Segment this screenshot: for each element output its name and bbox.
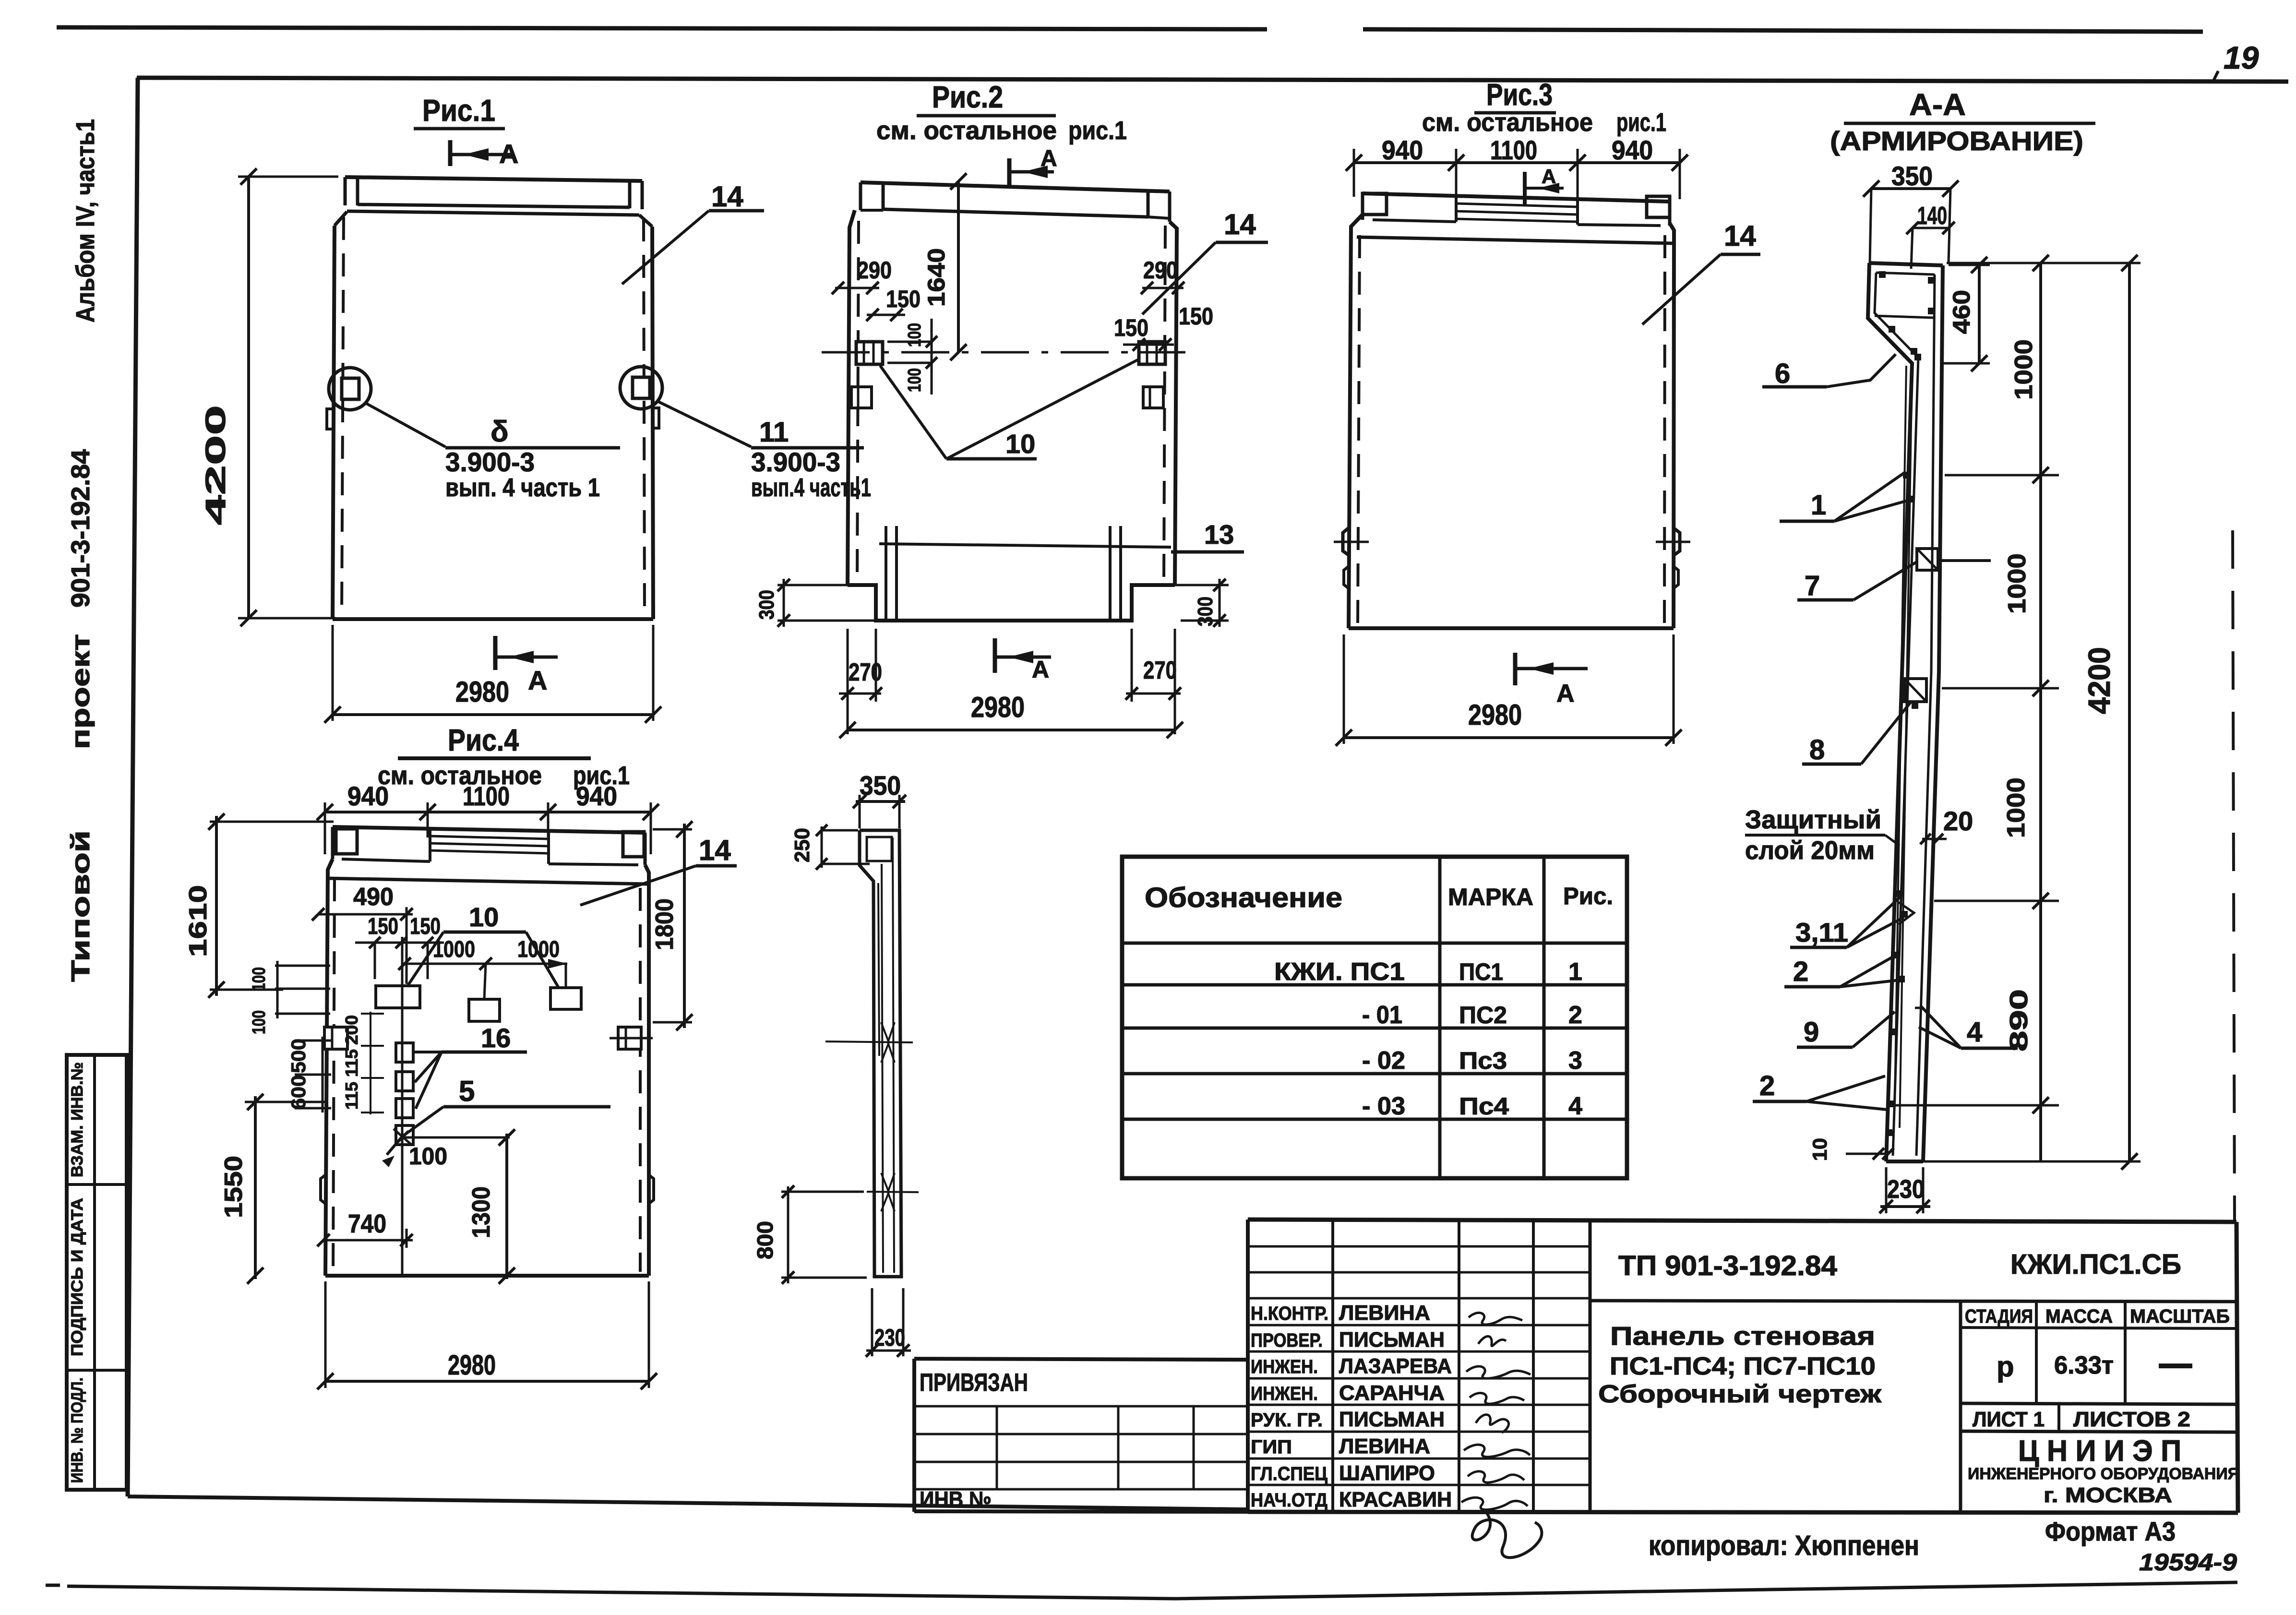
Ris.2 dashed inner right (1164, 226, 1165, 581)
Ris.1 dashed inner edge right (644, 218, 645, 615)
sheet frame bottom (128, 1496, 1248, 1509)
svg-text:КЖИ.ПС1.СБ: КЖИ.ПС1.СБ (2010, 1249, 2181, 1280)
svg-text:14: 14 (1224, 208, 1256, 240)
svg-text:20: 20 (1943, 806, 1973, 836)
svg-text:г. МОСКВА: г. МОСКВА (2044, 1483, 2172, 1507)
svg-text:4200: 4200 (200, 405, 231, 525)
svg-text:A: A (528, 665, 547, 695)
Ris.3 socket left (1343, 528, 1350, 556)
svg-text:300: 300 (755, 590, 778, 620)
Ris.4 thin vertical line (401, 937, 404, 1276)
A-A dim chain 1000/1000/1000/890 (2039, 263, 2042, 1161)
Ris.2 dim 300 left (777, 584, 848, 586)
svg-text:1300: 1300 (467, 1186, 495, 1238)
svg-text:11: 11 (759, 417, 789, 448)
svg-text:ПОДПИСЬ И ДАТА: ПОДПИСЬ И ДАТА (68, 1198, 86, 1356)
Ris.4 dimension 2980 bottom (324, 1281, 327, 1388)
A-A dim 460 (1978, 265, 1981, 363)
svg-text:ГИП: ГИП (1251, 1436, 1292, 1458)
Ris.1 panel bottom edge (333, 617, 653, 621)
svg-text:ТП 901-3-192.84: ТП 901-3-192.84 (1618, 1250, 1837, 1281)
sheet frame top (137, 78, 2288, 82)
svg-text:4200: 4200 (2082, 647, 2117, 714)
svg-text:230: 230 (1887, 1175, 1925, 1204)
Ris.3 dashed inner right (1664, 235, 1665, 624)
svg-text:ПС2: ПС2 (1459, 1002, 1507, 1029)
Ris.2 dimension 2980 bottom (848, 729, 1175, 731)
svg-text:10: 10 (469, 902, 499, 932)
title block center divider (1589, 1220, 1592, 1512)
svg-text:- 02: - 02 (1362, 1047, 1405, 1075)
bottom rule (67, 1582, 2237, 1599)
A-A stem mid lines (1895, 366, 1906, 1104)
svg-text:ЛАЗАРЕВА: ЛАЗАРЕВА (1339, 1354, 1452, 1378)
Ris.1 panel right edge (652, 227, 653, 619)
Ris.4 embedded plates (376, 986, 420, 1008)
svg-text:890: 890 (2005, 989, 2033, 1052)
svg-text:Защитный: Защитный (1745, 805, 1881, 834)
svg-text:A: A (1542, 165, 1556, 188)
svg-text:150: 150 (410, 914, 441, 939)
svg-text:вып.4 часть1: вып.4 часть1 (751, 473, 871, 502)
svg-text:2980: 2980 (1468, 699, 1522, 731)
svg-text:2980: 2980 (448, 1350, 496, 1381)
signatures (1469, 1313, 1522, 1325)
svg-text:ПРИВЯЗАН: ПРИВЯЗАН (920, 1369, 1028, 1397)
svg-text:940: 940 (1382, 135, 1423, 165)
Ris.4 socket right (618, 1027, 641, 1049)
svg-text:7: 7 (1805, 570, 1820, 601)
svg-text:250: 250 (790, 828, 814, 862)
svg-text:8: 8 (1809, 734, 1825, 766)
Ris.1 dimension 2980 bottom (332, 625, 334, 721)
svg-text:ВЗАМ. ИНВ.№: ВЗАМ. ИНВ.№ (68, 1062, 86, 1177)
svg-text:ЛЕВИНА: ЛЕВИНА (1339, 1301, 1430, 1325)
svg-text:ПС1-ПС4; ПС7-ПС10: ПС1-ПС4; ПС7-ПС10 (1610, 1352, 1876, 1380)
Ris.3 panel right edge (1670, 223, 1674, 628)
svg-text:рис.1: рис.1 (1068, 116, 1127, 145)
svg-text:14: 14 (711, 180, 743, 213)
Ris.1 panel second edge line (347, 211, 639, 215)
Ris.4 bottom edge (325, 1274, 649, 1278)
parts table (1122, 857, 1627, 1178)
svg-text:рис.1: рис.1 (1616, 108, 1666, 137)
svg-text:1: 1 (1568, 958, 1582, 986)
svg-text:см. остальное: см. остальное (876, 116, 1057, 145)
Ris.2 panel right edge (1170, 222, 1177, 585)
svg-text:230: 230 (874, 1324, 905, 1351)
svg-text:2: 2 (1793, 956, 1808, 987)
A-A dim 4200 overall (2128, 263, 2131, 1161)
Ris.3 dimension 2980 bottom (1343, 634, 1345, 744)
svg-text:проект: проект (66, 634, 95, 749)
svg-text:слой 20мм: слой 20мм (1745, 836, 1875, 865)
Ris.4 dim 1300 (505, 1134, 508, 1279)
Ris.1 dashed inner edge left (342, 217, 344, 615)
svg-text:Панель стеновая: Панель стеновая (1610, 1322, 1875, 1351)
svg-text:Рис.2: Рис.2 (932, 80, 1003, 114)
svg-text:1100: 1100 (463, 781, 510, 811)
Ris.3 section mark A bottom (1513, 653, 1518, 685)
svg-text:- 03: - 03 (1362, 1092, 1405, 1120)
svg-text:Альбом IV, часть1: Альбом IV, часть1 (71, 119, 100, 323)
side profile inner top box (867, 837, 892, 861)
Ris.2 socket left (856, 342, 883, 364)
svg-text:ПС1: ПС1 (1459, 958, 1503, 985)
svg-text:(АРМИРОВАНИЕ): (АРМИРОВАНИЕ) (1830, 126, 2083, 156)
Ris.1 leader to label 11 (658, 401, 751, 447)
Ris.3 section mark A top (1523, 172, 1527, 205)
svg-text:A: A (1040, 146, 1057, 171)
Ris.3 second full line (1357, 237, 1673, 243)
svg-text:А-А: А-А (1909, 87, 1966, 122)
Ris.2 section mark A top (1007, 158, 1012, 185)
svg-text:НАЧ.ОТД: НАЧ.ОТД (1251, 1490, 1327, 1511)
A-A embedded detail upper (1917, 549, 1938, 570)
svg-text:см. остальное: см. остальное (378, 761, 542, 790)
svg-text:ИНВ. № ПОДЛ.: ИНВ. № ПОДЛ. (68, 1377, 86, 1483)
Ris.3 tab bottoms (1373, 220, 1456, 222)
svg-text:1610: 1610 (184, 885, 212, 957)
svg-text:19: 19 (2224, 40, 2259, 75)
svg-text:КЖИ. ПС1: КЖИ. ПС1 (1274, 958, 1405, 986)
Ris.1 lifting loop circle right (620, 367, 662, 409)
svg-text:100: 100 (905, 323, 925, 347)
svg-text:10: 10 (1808, 1138, 1831, 1161)
svg-text:940: 940 (576, 781, 617, 811)
svg-text:см. остальное: см. остальное (1422, 108, 1593, 137)
Ris.4 small embed squares column (396, 1043, 413, 1062)
Ris.1 small edge notches (327, 409, 333, 429)
svg-text:3: 3 (1568, 1047, 1582, 1075)
svg-text:КРАСАВИН: КРАСАВИН (1339, 1488, 1452, 1511)
svg-text:Обозначение: Обозначение (1145, 882, 1342, 913)
svg-text:13: 13 (1204, 519, 1234, 550)
side profile outline (860, 830, 901, 1277)
svg-text:Рис.3: Рис.3 (1486, 77, 1553, 112)
Ris.3 bottom edge (1349, 626, 1674, 630)
svg-text:350: 350 (1891, 161, 1933, 191)
svg-text:ЛИСТ 1: ЛИСТ 1 (1973, 1408, 2045, 1431)
svg-text:100: 100 (249, 1010, 269, 1034)
Ris.4 dims 100 100 left (275, 965, 330, 967)
svg-text:1000: 1000 (2010, 339, 2038, 400)
svg-text:A: A (1556, 680, 1575, 707)
svg-text:вып. 4 часть 1: вып. 4 часть 1 (445, 473, 600, 502)
Ris.4 panel right edge (645, 865, 649, 1276)
title block outline (1248, 1220, 2236, 1222)
svg-text:600: 600 (287, 1075, 310, 1110)
Ris.2 dim 300 right (1175, 584, 1229, 586)
svg-text:МАСШТАБ: МАСШТАБ (2130, 1306, 2230, 1327)
svg-text:14: 14 (699, 834, 731, 866)
svg-text:3.900-3: 3.900-3 (445, 447, 535, 477)
svg-text:ИНЖЕН.: ИНЖЕН. (1251, 1356, 1318, 1377)
svg-text:14: 14 (1724, 220, 1756, 252)
svg-text:300: 300 (1194, 597, 1217, 626)
svg-text:Пс3: Пс3 (1459, 1047, 1507, 1074)
svg-text:19594-9: 19594-9 (2139, 1549, 2237, 1576)
side profile dim 800 (781, 1191, 864, 1193)
margin stamp boxes bottom-left (67, 1055, 127, 1490)
svg-text:740: 740 (348, 1209, 386, 1238)
svg-text:ЛЕВИНА: ЛЕВИНА (1339, 1435, 1430, 1458)
side profile dim 230 (871, 1288, 873, 1356)
svg-text:100: 100 (905, 368, 925, 392)
Ris.4 dims 115 115 200 (370, 1012, 371, 1114)
Ris.4 dashed inner right (639, 888, 642, 1272)
Ris.3 lower edge notches (1344, 566, 1349, 588)
svg-text:2: 2 (1759, 1070, 1775, 1101)
Ris.2 door jamb bars right (1109, 526, 1112, 619)
Ris.1 panel left shoulder (335, 212, 347, 226)
Ris.1 panel left edge (333, 226, 335, 619)
svg-text:Формат А3: Формат А3 (2045, 1516, 2176, 1546)
Ris.3 center recess lines (1456, 203, 1578, 207)
Ris.4 socket left (324, 1027, 347, 1049)
names table columns (1331, 1220, 1334, 1512)
svg-text:115: 115 (342, 1082, 361, 1110)
Ris.1 section mark A bottom (493, 636, 498, 670)
Ris.3 dashed inner left (1358, 235, 1360, 624)
sheet frame left (128, 78, 138, 1496)
A-A inner wall lines (1876, 273, 1935, 275)
svg-text:р: р (1997, 1351, 2014, 1383)
Ris.4 dim 1800 right (653, 828, 692, 831)
Ris.3 panel left edge (1349, 215, 1363, 628)
svg-text:140: 140 (1917, 202, 1947, 230)
svg-text:Рис.4: Рис.4 (448, 723, 519, 757)
svg-text:100: 100 (409, 1143, 447, 1170)
svg-text:3,11: 3,11 (1795, 917, 1848, 947)
Ris.4 top strip (333, 827, 645, 833)
Ris.2 socket right (1139, 342, 1165, 364)
svg-text:ПИСЬМАН: ПИСЬМАН (1339, 1328, 1445, 1352)
Ris.2 center line (822, 351, 1185, 354)
svg-text:290: 290 (1143, 257, 1178, 284)
Ris.1 panel right shoulder (639, 215, 652, 227)
Ris.2 bottom outline with center sill (848, 585, 1175, 621)
svg-text:ИНВ №: ИНВ № (920, 1487, 992, 1512)
A-A rebar dots (1879, 271, 1886, 278)
Ris.2 lower notch right (1143, 387, 1163, 408)
svg-text:9: 9 (1804, 1017, 1819, 1048)
svg-text:200: 200 (342, 1015, 361, 1045)
Ris.2 dimension 1640 (957, 181, 960, 352)
svg-text:РУК. ГР.: РУК. ГР. (1251, 1410, 1323, 1431)
svg-text:460: 460 (1948, 290, 1975, 334)
svg-text:САРАНЧА: САРАНЧА (1339, 1381, 1445, 1405)
sheet frame right (2233, 530, 2235, 1221)
svg-text:2980: 2980 (455, 676, 509, 708)
Ris.2 panel left edge (848, 210, 855, 585)
svg-text:Рис.1: Рис.1 (422, 93, 495, 128)
Ris.4 tab bottoms (342, 859, 430, 861)
Ris.2 door jamb bars left (885, 526, 887, 619)
svg-text:Н.КОНТР.: Н.КОНТР. (1251, 1303, 1328, 1324)
svg-text:100: 100 (249, 967, 269, 991)
Ris.4 lower edge notches (321, 1175, 325, 1204)
Ris.4 dim 1610 left (210, 821, 334, 823)
svg-text:490: 490 (353, 883, 394, 911)
A-A hook strokes mid (1899, 902, 1914, 924)
Ris.2 top strip (861, 182, 1170, 191)
svg-text:1800: 1800 (651, 898, 679, 950)
Ris.2 dims 100/100 left (887, 341, 933, 343)
Ris.2 dashed inner left (857, 221, 859, 581)
svg-text:Рис.: Рис. (1563, 883, 1613, 909)
svg-text:940: 940 (347, 781, 389, 811)
svg-text:2: 2 (1568, 1001, 1582, 1029)
svg-text:δ: δ (490, 415, 509, 448)
svg-text:270: 270 (1143, 657, 1177, 684)
svg-text:1640: 1640 (923, 248, 950, 307)
A-A dim 230 bottom (1885, 1167, 1888, 1213)
svg-text:1000: 1000 (433, 937, 475, 962)
svg-text:1550: 1550 (220, 1156, 248, 1218)
side profile inner lines (882, 864, 883, 1273)
signature flourish (1472, 1512, 1542, 1557)
svg-text:3.900-3: 3.900-3 (751, 447, 840, 477)
Ris.1 panel top strip (345, 177, 642, 181)
svg-text:ПИСЬМАН: ПИСЬМАН (1339, 1408, 1445, 1431)
svg-text:6.33т: 6.33т (2054, 1352, 2114, 1379)
svg-text:ПРОВЕР.: ПРОВЕР. (1251, 1330, 1323, 1351)
Ris.1 leader to label 5 (366, 403, 445, 447)
svg-text:500: 500 (287, 1039, 310, 1073)
svg-text:Ц Н И И Э П: Ц Н И И Э П (2018, 1435, 2181, 1468)
svg-text:800: 800 (753, 1221, 777, 1259)
svg-text:Типовой: Типовой (66, 830, 95, 982)
svg-text:150: 150 (886, 286, 921, 312)
svg-text:A: A (1032, 656, 1049, 683)
svg-text:4: 4 (1967, 1017, 1982, 1048)
svg-text:2980: 2980 (971, 691, 1025, 723)
side profile joint marks (825, 1041, 913, 1042)
svg-text:901-3-192.84: 901-3-192.84 (66, 449, 95, 608)
svg-text:- 01: - 01 (1362, 1001, 1402, 1029)
svg-text:1100: 1100 (1490, 135, 1537, 165)
svg-text:290: 290 (857, 257, 892, 284)
svg-text:копировал: Хюппенен: копировал: Хюппенен (1649, 1530, 1919, 1561)
svg-text:5: 5 (459, 1075, 475, 1107)
Ris.4 dims 500 600 left (322, 1037, 324, 1113)
Ris.4 center recess lines (430, 836, 549, 839)
svg-text:1000: 1000 (2003, 553, 2031, 614)
Ris.2 door opening line 13 (879, 544, 1171, 547)
svg-text:ИНЖЕН.: ИНЖЕН. (1251, 1383, 1318, 1404)
svg-text:150: 150 (368, 914, 398, 939)
Ris.1 lifting loop circle left (329, 368, 371, 410)
Ris.4 dashed inner left (333, 878, 335, 1272)
Ris.3 socket right (1673, 528, 1680, 556)
svg-text:1000: 1000 (2002, 778, 2030, 838)
svg-text:1000: 1000 (517, 937, 560, 962)
svg-text:16: 16 (481, 1023, 511, 1053)
svg-text:A: A (499, 139, 518, 169)
svg-text:ШАПИРО: ШАПИРО (1339, 1461, 1435, 1485)
svg-text:Пс4: Пс4 (1459, 1093, 1509, 1120)
Ris.3 top strip (1363, 193, 1670, 202)
svg-text:6: 6 (1775, 358, 1790, 389)
privyazan block (914, 1359, 1248, 1360)
svg-text:ИНЖЕНЕРНОГО ОБОРУДОВАНИЯ: ИНЖЕНЕРНОГО ОБОРУДОВАНИЯ (1968, 1465, 2239, 1483)
svg-text:СТАДИЯ: СТАДИЯ (1965, 1306, 2033, 1327)
svg-text:150: 150 (1114, 314, 1148, 341)
Ris.1 dimension 4200 left (247, 177, 250, 618)
Ris.4 dim 1550 left (245, 1101, 326, 1103)
Ris.4 panel left edge (325, 859, 333, 1276)
svg-text:10: 10 (1005, 429, 1035, 459)
svg-text:ГЛ.СПЕЦ: ГЛ.СПЕЦ (1251, 1463, 1327, 1484)
stamp grid stage/mass/scale (1959, 1302, 1962, 1512)
Ris.2 lower notch left (851, 387, 872, 408)
Ris.2 section mark A bottom (993, 638, 997, 673)
svg-text:Сборочный чертеж: Сборочный чертеж (1598, 1380, 1882, 1408)
svg-text:МАРКА: МАРКА (1448, 884, 1533, 910)
svg-text:1: 1 (1811, 490, 1826, 521)
svg-text:ЛИСТОВ 2: ЛИСТОВ 2 (2073, 1408, 2190, 1431)
svg-text:МАССА: МАССА (2045, 1306, 2113, 1327)
svg-text:115: 115 (342, 1049, 361, 1077)
svg-text:150: 150 (1179, 303, 1213, 330)
top rule line (57, 27, 1267, 29)
svg-text:940: 940 (1612, 135, 1653, 165)
A-A embedded detail lower (1904, 679, 1926, 702)
A-A box bottom inner line (1875, 316, 1933, 318)
names table rows (1248, 1245, 1590, 1248)
Ris.4 second full line (328, 878, 648, 884)
A-A section outline (1869, 263, 1943, 265)
Ris.1 section mark A top (448, 140, 453, 166)
svg-text:4: 4 (1568, 1092, 1582, 1120)
